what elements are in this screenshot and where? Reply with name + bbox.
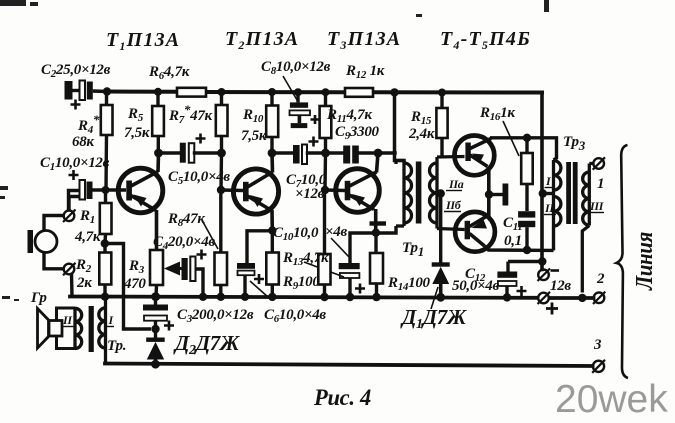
svg-text:3: 3 <box>593 337 602 353</box>
label D1 + pointer <box>431 287 438 309</box>
svg-text:Т2П13А: Т2П13А <box>225 28 299 52</box>
svg-text:20wek: 20wek <box>555 378 668 421</box>
node D2 bottom on line rail <box>151 360 160 369</box>
svg-text:R14100: R14100 <box>387 275 431 293</box>
transistor T1 <box>118 153 163 250</box>
wire C6 jog from emitter <box>247 231 272 263</box>
node R15 top <box>438 89 446 97</box>
transformer Tr core <box>89 306 94 352</box>
svg-text:R64,7к: R64,7к <box>148 64 190 82</box>
diode D1 <box>432 262 450 297</box>
node C12 bottom rail <box>503 293 511 301</box>
svg-text:2: 2 <box>596 271 605 287</box>
diode D2 <box>146 338 165 365</box>
input plug bottom (to common) <box>63 263 76 297</box>
resistor R8 <box>215 194 228 297</box>
svg-text:12в: 12в <box>550 278 571 294</box>
wire C12 top link <box>508 260 542 263</box>
wire T5 collector line y=250 <box>485 246 554 250</box>
svg-text:2к: 2к <box>76 275 92 291</box>
capacitor C8 (decoupling, with chassis bar) <box>290 94 320 128</box>
svg-text:II: II <box>544 201 555 215</box>
svg-text:С610,0×4в: С610,0×4в <box>264 307 326 325</box>
node C3/D2 top on rail <box>151 292 160 301</box>
svg-text:С93300: С93300 <box>335 124 380 142</box>
svg-text:Д2Д7Ж: Д2Д7Ж <box>173 331 240 358</box>
svg-text:R847к: R847к <box>167 211 205 229</box>
resistor R13 <box>318 194 330 297</box>
node R3 bottom rail <box>152 293 160 301</box>
resistor R1 <box>100 190 112 244</box>
svg-text:Тр.: Тр. <box>107 338 126 354</box>
transformer Tr3 secondary (III) <box>582 164 593 293</box>
resistor R2 <box>99 244 111 297</box>
svg-text:68к: 68к <box>72 134 94 150</box>
terminal 2 plug <box>593 292 605 304</box>
svg-text:С1010,0: С1010,0 <box>273 225 319 243</box>
node C11 bottom <box>523 246 531 254</box>
transformer Tr3 primary (I/II) <box>554 160 561 226</box>
resistor R4 <box>101 95 113 190</box>
node R2 bottom rail <box>101 293 109 301</box>
node C8 top <box>294 88 302 96</box>
node C6 bottom rail <box>241 293 249 301</box>
wire T2 base feed <box>219 153 223 190</box>
capacitor C5 <box>180 134 206 163</box>
resistor R16 <box>521 138 533 211</box>
wire T4 collector to Tr3 primary top <box>490 138 557 160</box>
resistor R9 <box>266 231 279 297</box>
wire T3 collector node up to rail after R12 <box>395 93 405 161</box>
node T1 collector / R5 / C5 <box>154 149 163 158</box>
resistor R5 <box>152 95 164 153</box>
node Tr3 secondary bottom on rail <box>578 294 586 302</box>
node bias tap joins C3/D2 <box>151 325 159 333</box>
svg-text:R9100: R9100 <box>282 274 320 292</box>
battery plus plug (on rail) <box>538 292 559 315</box>
svg-text:1: 1 <box>597 176 604 192</box>
wire stage3 C9 line y=153 <box>326 151 344 155</box>
node supply/C12 junction <box>538 257 546 265</box>
transistor T2 <box>221 153 279 231</box>
line brace <box>617 145 629 378</box>
svg-text:Рис. 4: Рис. 4 <box>313 385 371 410</box>
node T1 base <box>102 186 110 194</box>
wire stage2 coupling y=153 <box>272 151 293 155</box>
node R11 bottom / C7 / C9 / T3 base <box>321 149 330 158</box>
capacitor C10 <box>339 263 365 297</box>
capacitor C4 with tap arrow to R3 <box>164 250 207 297</box>
capacitor C3 <box>143 297 174 338</box>
svg-text:4,7к: 4,7к <box>74 229 101 245</box>
svg-text:2,4к: 2,4к <box>408 126 435 142</box>
node R12 right / T3 feed <box>390 88 398 96</box>
wire collector bus y=153 stage1 <box>159 151 181 155</box>
speaker Gr <box>38 308 76 349</box>
node T3 collector / C9 <box>374 149 383 158</box>
capacitor C12 <box>497 262 526 298</box>
transistor T5 <box>455 195 495 252</box>
node T2 emitter junction <box>268 226 276 234</box>
node A: C2/R4 rail junction <box>103 87 111 95</box>
svg-text:Д1Д7Ж: Д1Д7Ж <box>400 305 467 332</box>
node Tr1 secondary centre tap <box>437 189 445 197</box>
transformer Tr1 core <box>416 162 422 224</box>
input plug top (to C1) <box>63 197 80 223</box>
resistor R6 <box>177 88 206 97</box>
node T3 emitter junction <box>372 229 380 237</box>
resistor R15 <box>436 95 447 157</box>
svg-text:Линия: Линия <box>632 232 658 291</box>
node R9 bottom rail <box>268 293 276 301</box>
transformer Tr3 core <box>566 162 571 224</box>
svg-text:×4в: ×4в <box>325 224 347 240</box>
capacitor C1 <box>69 170 127 212</box>
node R8 bottom rail <box>217 293 225 301</box>
resistor R12 (series in rail) <box>345 88 373 97</box>
svg-text:50,0×4в: 50,0×4в <box>452 278 499 294</box>
svg-text:III: III <box>589 199 605 213</box>
node C10 bottom rail <box>346 293 354 301</box>
svg-text:R134,7к: R134,7к <box>282 250 329 268</box>
svg-text:470: 470 <box>123 276 146 292</box>
node R1/R2 junction <box>101 239 109 247</box>
scan noise <box>0 0 549 301</box>
transformer Tr winding II (speaker side) <box>75 308 82 349</box>
transistor T4 <box>455 136 495 195</box>
chassis bar on T3 emitter <box>370 221 387 225</box>
svg-text:7,5к: 7,5к <box>241 128 267 144</box>
wire bias tap to C3/D2 node <box>105 244 151 330</box>
node R11 top <box>322 88 330 96</box>
capacitor C6 <box>237 263 264 297</box>
svg-text:R114,7к: R114,7к <box>326 107 372 125</box>
wire T3 base feed <box>323 153 327 190</box>
wire supply feed vertical right <box>540 93 544 270</box>
svg-text:IIа: IIа <box>448 177 464 191</box>
resistor R11 <box>320 95 332 153</box>
node R13 bottom rail <box>320 293 328 301</box>
chassis bar at emitters <box>489 184 508 206</box>
transformer Tr winding I (line side) <box>99 297 106 364</box>
node R16 top <box>523 134 531 142</box>
transformer Tr1 primary <box>396 161 412 227</box>
wire top supply rail <box>107 90 177 94</box>
svg-text:0,1: 0,1 <box>504 233 522 249</box>
node C4 bottom rail <box>199 293 207 301</box>
node R5 top <box>154 88 162 96</box>
transistor T3 <box>325 153 379 233</box>
terminal 1 plug <box>593 157 605 169</box>
svg-text:×12в: ×12в <box>295 186 325 202</box>
svg-text:7,5к: 7,5к <box>124 125 150 141</box>
node R7 top <box>218 88 226 96</box>
wire second line rail (to terminal 3) <box>105 364 593 367</box>
svg-text:Гр: Гр <box>30 290 47 306</box>
node Tr3 centre tap to supply <box>539 189 547 197</box>
node T2 collector / R10 / C7 <box>268 149 277 158</box>
resistor R10 <box>266 95 278 153</box>
resistor R3 <box>150 250 163 297</box>
node D1 bottom rail <box>436 293 445 302</box>
wire centre tap to D1 <box>439 194 442 263</box>
svg-text:Т1П13А: Т1П13А <box>106 29 180 53</box>
wire C10 jog from emitter <box>350 233 376 263</box>
label C6 value + pointer <box>250 281 268 297</box>
resistor R7 <box>216 95 228 153</box>
svg-text:Т3П13А: Т3П13А <box>327 28 401 52</box>
battery minus plug <box>538 269 560 282</box>
transformer Tr1 secondary (IIa/IIb) <box>430 157 465 230</box>
capacitor C2 <box>65 81 108 110</box>
wire bottom common rail <box>70 297 538 298</box>
capacitor C7 <box>293 137 319 165</box>
capacitor C11 <box>518 211 535 250</box>
terminal 3 plug <box>592 360 605 373</box>
microphone <box>28 216 64 269</box>
svg-text:II: II <box>62 313 73 327</box>
capacitor C9 <box>343 146 359 164</box>
node R10 top <box>268 88 276 96</box>
wire Tr3 primary bottom stub <box>552 226 555 250</box>
node T2 base <box>217 186 225 194</box>
wire Tr1 primary bottom to emitter node <box>376 226 396 233</box>
node T3 base <box>321 186 329 194</box>
svg-text:IIб: IIб <box>445 198 462 212</box>
node C5 right / R7 / T2 base feed <box>217 149 226 158</box>
resistor R14 <box>370 236 383 297</box>
node R14 bottom rail <box>372 293 380 301</box>
node T4/T5 emitters <box>485 190 493 198</box>
